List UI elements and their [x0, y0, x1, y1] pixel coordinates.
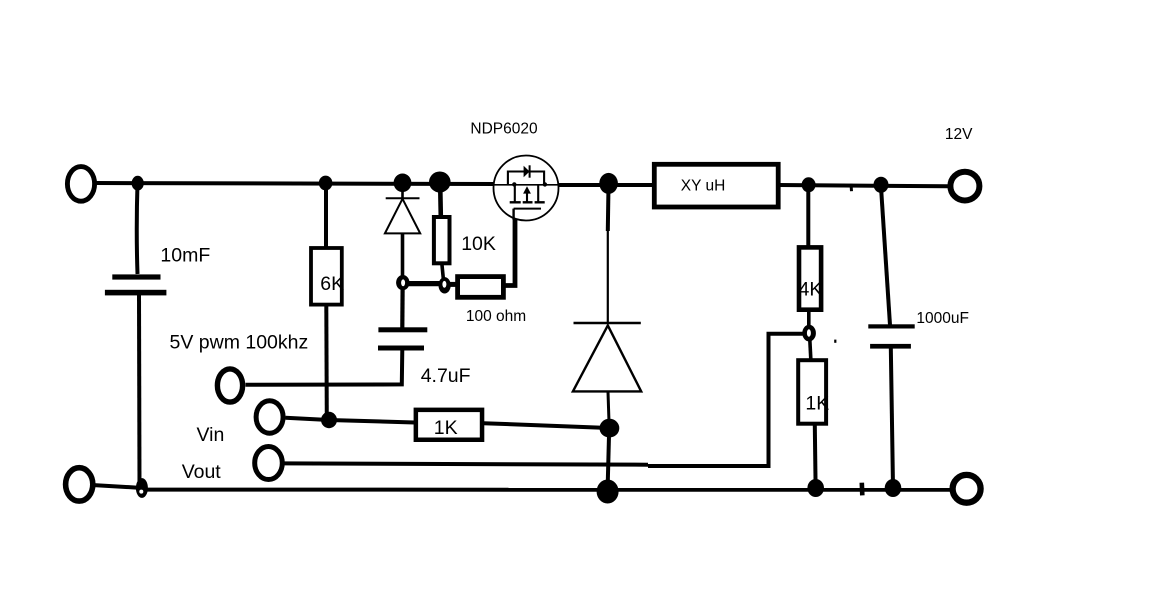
svg-text:6K: 6K [320, 273, 344, 295]
svg-text:NDP6020: NDP6020 [470, 120, 538, 137]
svg-text:Vin: Vin [197, 424, 225, 446]
svg-text:1K: 1K [805, 392, 829, 414]
svg-text:10K: 10K [461, 233, 496, 255]
svg-text:4K: 4K [799, 278, 823, 300]
svg-text:12V: 12V [945, 126, 973, 143]
svg-text:XY uH: XY uH [681, 177, 726, 194]
svg-text:1K: 1K [434, 417, 458, 439]
svg-text:Vout: Vout [182, 461, 222, 483]
svg-text:1000uF: 1000uF [916, 310, 969, 327]
svg-text:5V pwm 100khz: 5V pwm 100khz [170, 332, 309, 354]
svg-text:100 ohm: 100 ohm [466, 308, 526, 325]
svg-text:10mF: 10mF [160, 244, 210, 266]
svg-text:4.7uF: 4.7uF [421, 365, 471, 387]
